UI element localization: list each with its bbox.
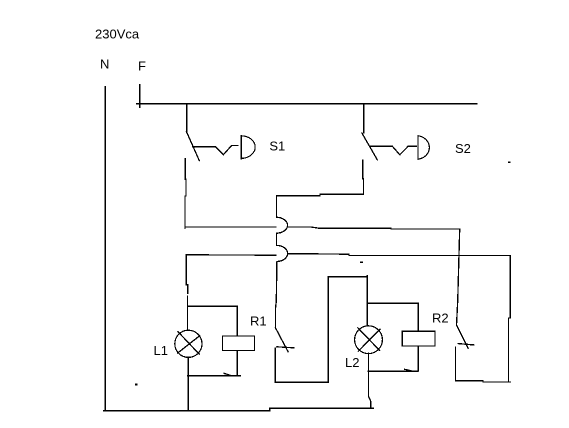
wire right riser <box>509 256 511 382</box>
wire to L2 feed <box>328 276 367 278</box>
wire riser to R2 contact <box>457 229 460 325</box>
switch S2 <box>362 133 429 160</box>
stray dot <box>135 384 137 386</box>
wire L1 feed lower <box>186 296 188 330</box>
wire horizontal 2 right <box>288 254 510 256</box>
wire bottom neutral rail <box>104 408 374 410</box>
wire riser from R1 contact <box>327 277 329 382</box>
wire S1 drop <box>186 104 188 131</box>
svg-text:230Vca: 230Vca <box>95 26 140 41</box>
wire R2 contact bottom <box>455 347 510 382</box>
svg-text:F: F <box>138 59 146 74</box>
wire L2 lamp bottom <box>368 353 370 408</box>
lamp L2 <box>355 326 383 354</box>
wire S2 feed with crossover hops <box>276 196 288 328</box>
svg-text:S1: S1 <box>269 139 285 154</box>
contact R2 <box>457 325 474 348</box>
stray dash near S2 <box>508 162 511 163</box>
wire F stub <box>139 85 141 108</box>
svg-text:N: N <box>100 57 109 72</box>
svg-text:L1: L1 <box>154 343 168 358</box>
wire N vertical <box>104 87 106 411</box>
wire below S1 <box>185 159 186 229</box>
svg-text:R1: R1 <box>250 313 267 328</box>
wire L1 feed upper <box>186 255 187 294</box>
wire below S2 <box>362 160 365 194</box>
stray dash below horizontal 2 <box>360 262 363 263</box>
wire L1 lamp bottom <box>187 357 189 410</box>
relay coil R2 branch <box>367 303 435 371</box>
wire horizontal 1 left <box>185 226 276 228</box>
wire S2 return <box>276 194 363 196</box>
svg-text:L2: L2 <box>345 355 359 370</box>
lamp L1 <box>175 330 202 357</box>
contact R1 <box>276 328 294 352</box>
relay coil R1 branch <box>187 306 254 375</box>
switch S1 <box>186 131 255 160</box>
svg-text:R2: R2 <box>432 310 449 325</box>
wire R1 contact bottom <box>275 348 328 382</box>
wire horizontal 2 left <box>186 254 276 256</box>
wire S2 drop <box>363 104 365 133</box>
wire horizontal 1 right <box>288 227 460 229</box>
wire L2 feed vertical <box>366 276 368 326</box>
svg-text:S2: S2 <box>455 141 471 156</box>
wire top phase rail <box>137 103 477 105</box>
